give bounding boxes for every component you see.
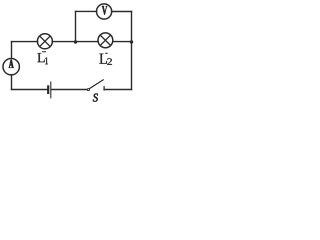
ammeter label A — [9, 60, 14, 68]
switch label S — [93, 94, 98, 102]
switch S blade — [90, 80, 104, 89]
wire: top horizontal right segment — [113, 41, 132, 43]
ammeter A circle — [3, 58, 19, 74]
wire: left vertical upper (corner to ammeter) — [11, 42, 13, 59]
wire: bottom horizontal middle segment — [51, 89, 86, 91]
wire: voltmeter branch top-right horizontal — [112, 11, 132, 13]
wire: voltmeter branch vertical — [75, 11, 77, 41]
battery negative plate (short thick) — [47, 86, 49, 93]
node junction dot right of L2 branch — [130, 40, 133, 43]
lamp L2 circle — [98, 33, 113, 48]
voltmeter label V — [102, 6, 107, 15]
wire: top horizontal left segment — [12, 41, 38, 43]
lamp label L1 — [37, 53, 48, 64]
wire: top horizontal middle segment — [52, 41, 98, 43]
wire: bottom horizontal left segment — [12, 89, 48, 91]
wire: voltmeter branch top-left horizontal — [76, 10, 97, 12]
lamp label L2 — [99, 54, 112, 65]
lamp L2 X — [100, 35, 110, 45]
battery positive plate (long thin) — [50, 82, 52, 98]
mark below lamp L1 — [42, 51, 46, 53]
node junction dot left of L2 branch — [74, 40, 77, 43]
wire: left vertical lower (ammeter to bottom corner) — [11, 75, 13, 90]
voltmeter V circle — [97, 4, 112, 19]
wire: right vertical — [131, 11, 133, 89]
wire: bottom horizontal right segment — [104, 89, 131, 91]
switch S right contact tick — [103, 87, 105, 90]
lamp L1 X — [40, 36, 51, 47]
switch S hinge circle — [87, 89, 89, 91]
lamp L1 circle — [37, 34, 52, 49]
mark below lamp L2 — [105, 52, 108, 54]
